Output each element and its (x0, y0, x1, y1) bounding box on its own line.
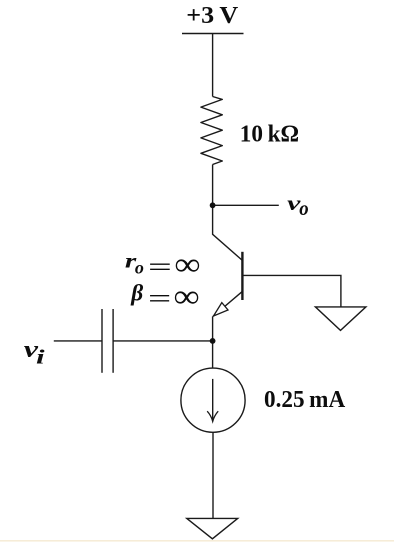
svg-text:=: = (148, 283, 171, 313)
wire source to ground (212, 432, 214, 518)
svg-text:10 kΩ: 10 kΩ (240, 121, 299, 147)
ground bottom (187, 518, 238, 538)
svg-text:∞: ∞ (174, 279, 199, 315)
wire vi to capacitor (54, 340, 102, 342)
transistor Q1 emitter (213, 292, 242, 317)
wire node to capacitor (113, 340, 213, 342)
wire node to vo label (213, 204, 279, 206)
svg-text:+3 V: +3 V (186, 3, 239, 29)
svg-text:∞: ∞ (175, 247, 200, 283)
svg-text:0.25 mA: 0.25 mA (264, 386, 345, 413)
wire base to ground (244, 275, 341, 307)
wire supply to resistor (212, 34, 214, 97)
svg-text:o: o (299, 199, 309, 220)
current source I1 circle (181, 368, 245, 432)
emitter arrowhead (214, 303, 229, 316)
svg-text:o: o (135, 257, 144, 277)
wire resistor to node vo (212, 165, 214, 206)
current source arrow shaft (212, 379, 214, 421)
svg-text:i: i (36, 346, 45, 368)
capacitor C1 plates (101, 309, 103, 373)
ground right (315, 307, 366, 331)
current source arrowhead (207, 411, 218, 421)
wire node to current source (212, 341, 214, 368)
node vi junction dot (210, 338, 216, 344)
supply rail bar +3V (182, 33, 244, 35)
transistor Q1 base bar (241, 252, 243, 300)
node vo junction dot (210, 202, 216, 208)
wire emitter to node (212, 316, 214, 341)
svg-text:=: = (148, 251, 172, 281)
svg-text:β: β (130, 281, 143, 307)
page edge line (0, 540, 394, 542)
resistor R1 10k zigzag (201, 97, 222, 165)
wire collector (213, 205, 242, 260)
